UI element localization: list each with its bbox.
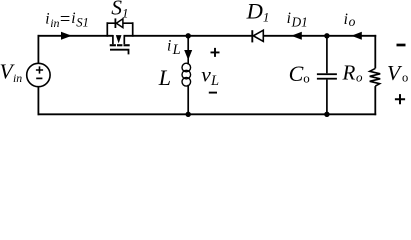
svg-text:in: in [13, 71, 22, 85]
svg-text:S1: S1 [76, 16, 89, 30]
current arrow i_D1 (left) [291, 32, 302, 40]
switch S1: channel segment 1 [110, 44, 116, 46]
label + (v_L) [211, 48, 220, 57]
node junction dot bottom of capacitor [324, 112, 329, 117]
current arrow i_o (left) [351, 32, 361, 40]
switch S1: body-diode branch right leg [132, 22, 134, 36]
svg-text:i: i [287, 10, 291, 27]
voltage source V_in circle [27, 63, 50, 86]
svg-text:o: o [402, 71, 408, 85]
capacitor branch upper wire [326, 36, 328, 74]
resistor branch upper wire [374, 35, 376, 69]
wire left branch lower (Vin to bottom rail) [37, 87, 39, 116]
svg-text:L: L [172, 42, 181, 58]
svg-text:D1: D1 [291, 15, 308, 30]
svg-text:v: v [201, 63, 211, 87]
svg-text:i: i [167, 37, 171, 54]
switch S1: diode branch top wire [107, 22, 134, 24]
switch S1: channel segment 3 [124, 44, 130, 46]
svg-text:=: = [60, 10, 70, 30]
resistor R_o zigzag [370, 68, 381, 86]
Vin plus sign [36, 66, 43, 73]
switch S1: body diode triangle (anode, pointing left) [116, 19, 123, 28]
svg-text:i: i [45, 10, 49, 27]
svg-text:i: i [344, 11, 348, 28]
wire top right (diode to R_o corner) [263, 35, 377, 37]
label + (V_o bottom) [395, 94, 405, 104]
svg-text:L: L [158, 65, 171, 90]
svg-text:i: i [71, 10, 75, 27]
switch S1: channel segment 2 [117, 44, 122, 46]
svg-text:D: D [246, 0, 263, 24]
label - (v_L) [209, 92, 217, 94]
current arrow i_in on top wire [61, 32, 72, 40]
capacitor C_o bottom plate [317, 78, 337, 80]
svg-text:o: o [303, 70, 310, 85]
wire top-left horizontal (Vin+ to switch) [38, 35, 114, 37]
diode D1 triangle (pointing left) [253, 30, 263, 41]
Vin minus sign [36, 77, 42, 79]
capacitor branch lower wire [326, 80, 328, 115]
switch S1: MOSFET source stub [123, 35, 125, 44]
svg-text:C: C [289, 61, 304, 86]
label - (V_o top) [397, 44, 406, 47]
wire left branch upper (to Vin source) [37, 35, 39, 64]
svg-text:1: 1 [263, 10, 270, 25]
bottom rail wire [38, 113, 377, 115]
switch S1: body diode cathode bar [114, 18, 116, 28]
diode D1 cathode bar [251, 30, 253, 42]
node junction dot top of capacitor [324, 33, 329, 38]
switch S1: MOSFET body arrow (filled triangle pointing down) [116, 35, 122, 43]
node junction dot bottom of inductor [186, 112, 191, 117]
capacitor C_o top plate [317, 73, 337, 75]
resistor branch lower wire [374, 86, 376, 115]
inductor L coil [187, 58, 189, 65]
wire top middle (switch to diode D1) [124, 35, 253, 37]
svg-text:o: o [349, 14, 356, 29]
svg-text:in: in [50, 16, 59, 30]
switch S1: gate electrode lead [110, 50, 129, 55]
current arrow i_L (down) on inductor branch [187, 36, 189, 58]
switch S1: MOSFET drain stub [112, 35, 114, 44]
svg-text:V: V [387, 61, 403, 85]
svg-text:L: L [210, 73, 219, 89]
svg-text:o: o [356, 69, 363, 84]
svg-text:S: S [111, 0, 122, 20]
svg-text:R: R [342, 61, 356, 85]
node junction dot top of inductor [186, 33, 191, 38]
switch S1: body-diode branch left leg [106, 22, 108, 36]
